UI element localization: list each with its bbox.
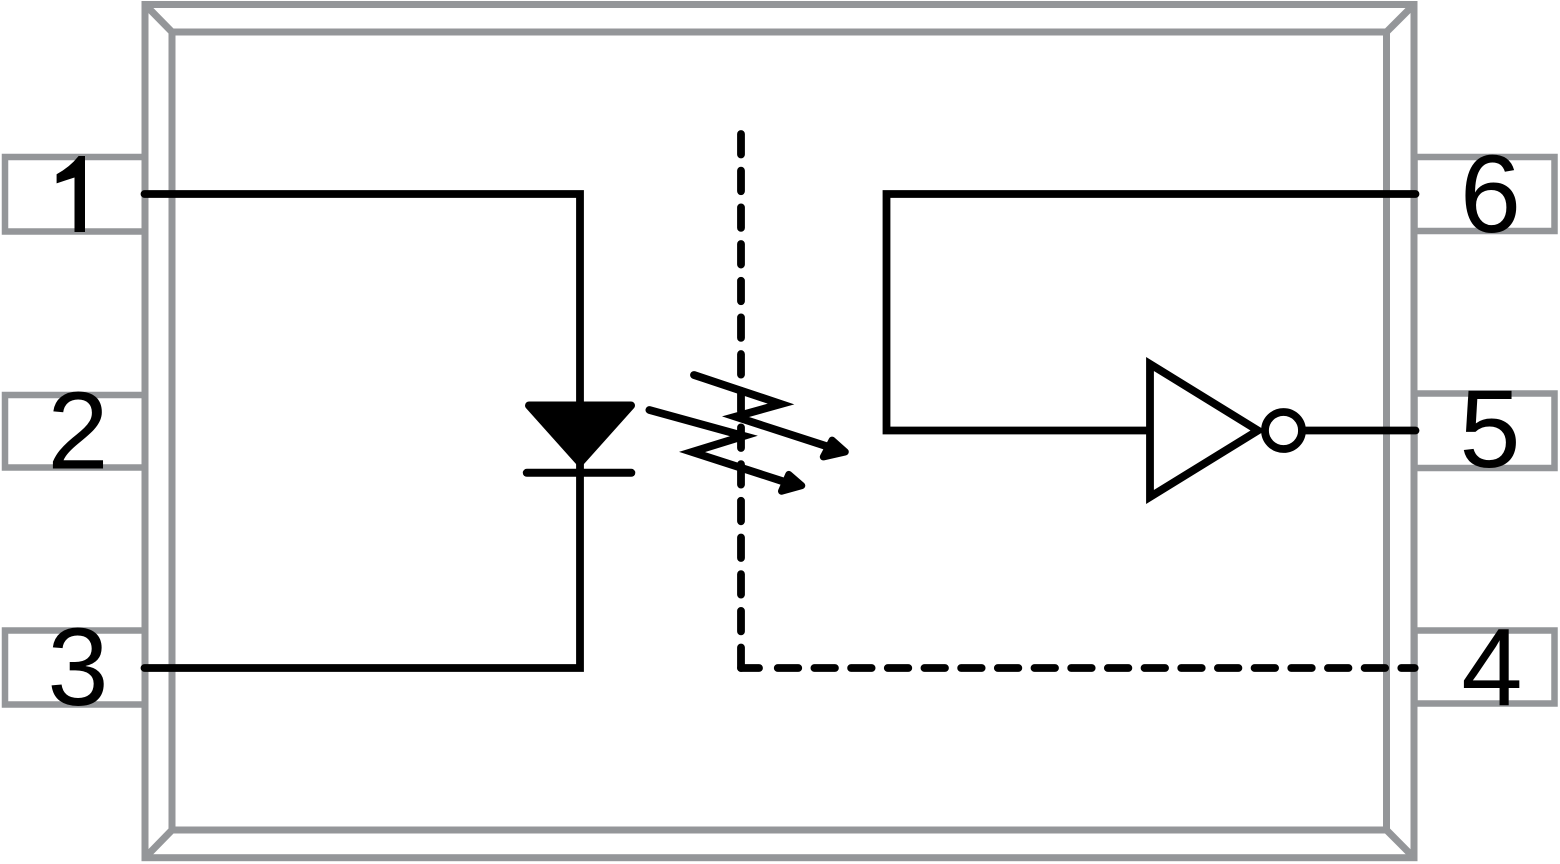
svg-text:2: 2 [47,370,108,493]
inverter U1 inversion bubble [1265,412,1302,449]
pin 6 pad [1415,157,1555,231]
wire: inverter output to pin 5 [1302,427,1416,435]
pin 2 pad [5,395,145,468]
wire: pin 6 down to detector input [887,194,1416,431]
svg-text:5: 5 [1459,368,1520,491]
package bevel top-right [1387,5,1415,33]
package outline inner rectangle [172,32,1387,830]
svg-text:6: 6 [1460,133,1521,256]
isolation barrier corner dash [741,664,759,672]
light emission arrow 2 (lower zigzag) [649,410,801,491]
wire: pin 1 to LED anode, LED cathode down to pin 3 [145,194,581,668]
svg-text:3: 3 [47,606,108,729]
LED D1 cathode bar [527,469,632,477]
inverter U1 triangle [1150,364,1258,497]
light emission arrow 1 (upper zigzag) [694,375,845,457]
pin 1 pad [5,157,145,232]
package bevel top-left [145,5,172,33]
pin 5 pad [1415,394,1555,469]
pin 4 pad [1415,631,1555,704]
pin 1 number label [57,156,85,232]
LED D1 anode triangle [529,406,631,463]
pin 3 pad [5,631,145,705]
isolation barrier dashed vertical line [737,134,745,668]
isolation barrier dashed line to pin 4 [778,664,1415,672]
svg-text:4: 4 [1461,606,1522,729]
package bevel bottom-right [1387,830,1415,858]
package bevel bottom-left [145,830,172,858]
